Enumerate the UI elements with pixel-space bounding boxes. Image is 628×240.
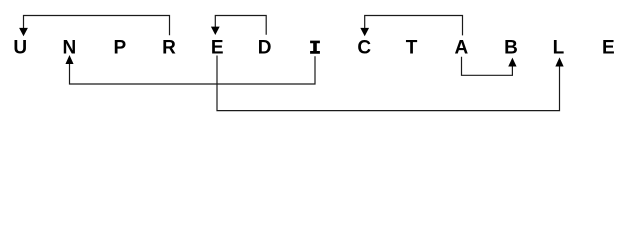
svg-text:D: D [258, 38, 272, 59]
svg-text:A: A [455, 38, 469, 59]
svg-text:R: R [162, 38, 176, 59]
svg-text:P: P [114, 38, 127, 59]
svg-text:B: B [504, 38, 518, 59]
svg-text:T: T [406, 38, 418, 59]
svg-text:E: E [602, 38, 615, 59]
svg-text:L: L [553, 38, 565, 59]
svg-text:C: C [357, 38, 371, 59]
svg-text:U: U [13, 38, 27, 59]
